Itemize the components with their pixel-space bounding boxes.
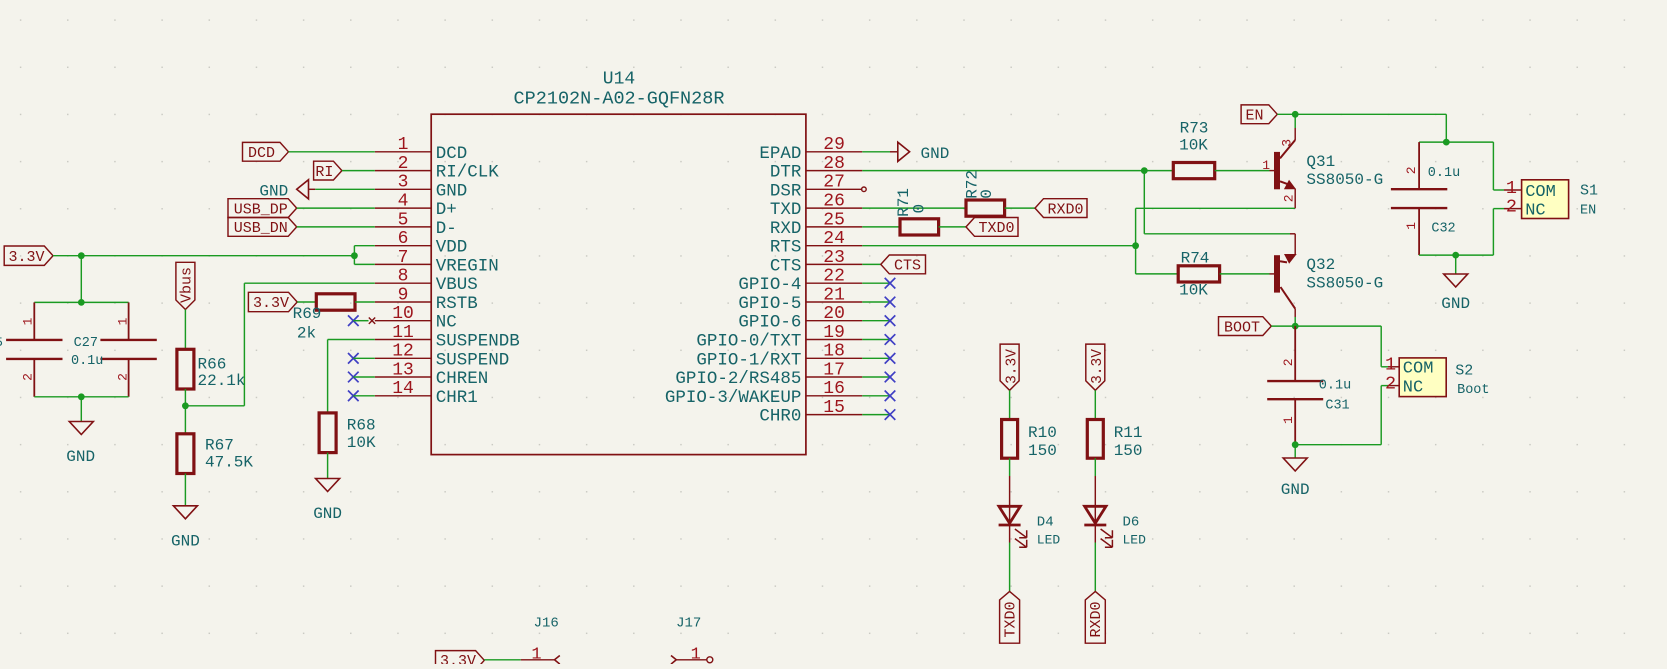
capacitor C31 <box>1267 326 1351 445</box>
svg-text:GPIO-6: GPIO-6 <box>738 313 801 333</box>
svg-text:D-: D- <box>436 219 457 239</box>
junction C32 top <box>1443 139 1450 146</box>
svg-text:28: 28 <box>823 154 845 174</box>
svg-text:11: 11 <box>392 323 414 343</box>
svg-text:2: 2 <box>1404 166 1419 174</box>
svg-text:CHREN: CHREN <box>436 369 489 389</box>
U14 pin 10 NC <box>375 304 457 333</box>
no-connect X pin 12 SUSPEND <box>348 353 375 364</box>
global label CTS <box>881 255 926 275</box>
svg-text:6: 6 <box>398 229 409 249</box>
global label DCD <box>243 142 289 162</box>
svg-text:13: 13 <box>392 360 414 380</box>
U14 pin 9 RSTB <box>375 285 478 314</box>
wire RTS up to Q31 emitter <box>1136 208 1296 245</box>
value LED D6 <box>1123 533 1147 548</box>
svg-text:2: 2 <box>1506 196 1517 217</box>
wire R74 to Q32 base <box>1220 273 1274 275</box>
wire 3.3V to R69 <box>297 301 316 303</box>
reference S2 <box>1455 363 1473 380</box>
global label USB_DN <box>228 218 297 238</box>
svg-text:0.1u: 0.1u <box>1319 379 1351 394</box>
global label EN <box>1241 105 1277 125</box>
svg-text:EPAD: EPAD <box>759 144 801 164</box>
svg-text:LED: LED <box>1037 533 1061 548</box>
svg-text:10K: 10K <box>1179 137 1208 155</box>
svg-text:20: 20 <box>823 304 845 324</box>
U14 pin 21 GPIO-5 <box>738 285 862 314</box>
svg-text:1: 1 <box>1404 222 1419 230</box>
wire pin 10 stub <box>353 320 368 322</box>
svg-text:CTS: CTS <box>894 258 921 275</box>
wire R67 to GND <box>184 474 186 506</box>
svg-text:GPIO-4: GPIO-4 <box>738 275 801 295</box>
svg-text:BOOT: BOOT <box>1224 319 1260 336</box>
svg-text:2: 2 <box>1385 373 1396 394</box>
svg-text:21: 21 <box>823 285 845 305</box>
resistor R71 <box>895 188 939 235</box>
svg-text:C32: C32 <box>1431 222 1455 237</box>
global label USB_DP <box>228 199 297 219</box>
wire DTR to R73 <box>862 170 1173 172</box>
svg-text:27: 27 <box>823 173 845 193</box>
svg-text:SS8050-G: SS8050-G <box>1306 171 1383 189</box>
svg-text:150: 150 <box>1114 442 1143 460</box>
svg-text:D+: D+ <box>436 200 457 220</box>
svg-text:RXD0: RXD0 <box>1047 201 1083 218</box>
svg-text:R67: R67 <box>205 437 234 455</box>
J16 pin 1 <box>521 645 560 664</box>
wire RI to pin 2 <box>342 170 375 172</box>
wire RTS down to R74 <box>1136 246 1179 274</box>
svg-text:CP2102N-A02-GQFN28R: CP2102N-A02-GQFN28R <box>514 88 725 109</box>
svg-text:USB_DN: USB_DN <box>234 220 288 237</box>
svg-text:0.1u: 0.1u <box>71 354 103 369</box>
ground symbol S1 <box>1441 274 1470 313</box>
LED D4 <box>999 506 1027 547</box>
svg-text:3.3V: 3.3V <box>253 295 289 312</box>
svg-text:3.3V: 3.3V <box>8 249 44 266</box>
resistor R66 <box>177 349 246 390</box>
U14 pin 2 RI/CLK <box>375 154 499 183</box>
wire R10 to D4 <box>1009 458 1011 506</box>
wire 3.3V to J16 pin 1 <box>484 659 521 661</box>
svg-text:GPIO-2/RS485: GPIO-2/RS485 <box>675 369 801 389</box>
U14 pin 7 VREGIN <box>375 248 499 277</box>
svg-text:16: 16 <box>823 379 845 399</box>
global label RXD0 <box>1035 199 1087 219</box>
no-connect flag pin 10 <box>369 318 375 324</box>
U14 pin 26 TXD <box>770 192 862 221</box>
power label 3.3V above R11 <box>1086 344 1106 390</box>
svg-text:17: 17 <box>823 360 845 380</box>
svg-text:RSTB: RSTB <box>436 294 478 314</box>
svg-text:GND: GND <box>1281 481 1310 499</box>
no-connect X pin 10 <box>348 315 359 326</box>
no-connect X pin 22 <box>862 278 895 289</box>
value EN S1 <box>1580 204 1596 219</box>
U14 pin 16 GPIO-3/WAKEUP <box>665 379 862 408</box>
svg-text:DCD: DCD <box>436 144 468 164</box>
svg-text:DTR: DTR <box>770 163 802 183</box>
capacitor C27 <box>71 302 157 396</box>
junction BOOT node <box>1292 323 1299 330</box>
svg-text:J16: J16 <box>534 616 559 632</box>
capacitor C26 (partial label) <box>0 302 63 396</box>
svg-text:0: 0 <box>910 204 928 214</box>
ground symbol R68 <box>313 479 342 524</box>
ground symbol R67 <box>171 506 200 551</box>
svg-text:5: 5 <box>398 210 409 230</box>
junction at VDD branch <box>351 252 358 259</box>
svg-text:CHR0: CHR0 <box>759 407 801 427</box>
U14 pin 17 GPIO-2/RS485 <box>675 360 862 389</box>
svg-text:CHR1: CHR1 <box>436 388 478 408</box>
junction RTS node <box>1132 242 1139 249</box>
no-connect X pin 21 <box>862 297 895 308</box>
svg-text:GPIO-3/WAKEUP: GPIO-3/WAKEUP <box>665 388 802 408</box>
svg-text:1: 1 <box>531 645 541 664</box>
U14 pin 24 RTS <box>770 229 862 258</box>
svg-text:25: 25 <box>823 210 845 230</box>
junction cap bottom <box>78 393 85 400</box>
svg-text:10K: 10K <box>1179 281 1208 299</box>
svg-text:4: 4 <box>398 192 409 212</box>
value LED D4 <box>1037 533 1061 548</box>
wire VBUS sense to pin 8 <box>185 283 374 406</box>
reference Q32 <box>1306 256 1335 274</box>
svg-text:8: 8 <box>398 267 409 287</box>
svg-text:NC: NC <box>436 313 457 333</box>
no-connect X pin 13 CHREN <box>348 372 375 383</box>
svg-text:DSR: DSR <box>770 181 802 201</box>
U14 pin 1 DCD <box>375 135 467 164</box>
resistor R67 <box>177 434 254 474</box>
svg-text:GND: GND <box>66 448 95 466</box>
no-connect X pin 14 CHR1 <box>348 391 375 402</box>
wire capacitor top rail <box>34 301 128 303</box>
U14 pin 18 GPIO-1/RXT <box>696 342 862 371</box>
svg-text:9: 9 <box>398 285 409 305</box>
svg-text:GND: GND <box>313 505 342 523</box>
resistor R72 <box>963 170 1004 216</box>
svg-text:Q31: Q31 <box>1306 153 1335 171</box>
svg-text:C27: C27 <box>74 336 98 351</box>
svg-text:R68: R68 <box>347 417 376 435</box>
svg-text:10: 10 <box>392 304 414 324</box>
U14 pin 19 GPIO-0/TXT <box>696 323 862 352</box>
svg-text:Vbus: Vbus <box>179 267 196 303</box>
svg-text:SUSPENDB: SUSPENDB <box>436 332 520 352</box>
U14 pin 14 CHR1 <box>375 379 478 408</box>
resistor R73 <box>1173 120 1214 179</box>
svg-text:C31: C31 <box>1325 399 1349 414</box>
wire BOOT rail <box>1271 317 1381 367</box>
U14 pin 5 D- <box>375 210 457 239</box>
svg-text:3.3V: 3.3V <box>1090 349 1106 384</box>
svg-text:RTS: RTS <box>770 238 802 258</box>
wire RTS from pin 24 <box>862 245 1135 247</box>
svg-text:GPIO-5: GPIO-5 <box>738 294 801 314</box>
svg-text:R74: R74 <box>1181 249 1210 267</box>
svg-text:GPIO-0/TXT: GPIO-0/TXT <box>696 332 801 352</box>
svg-text:RI: RI <box>315 164 333 181</box>
svg-text:J17: J17 <box>676 616 701 632</box>
svg-text:Boot: Boot <box>1457 383 1489 398</box>
svg-text:D4: D4 <box>1037 514 1054 530</box>
svg-text:R10: R10 <box>1028 424 1057 442</box>
wire EN rail <box>1277 114 1446 142</box>
U14 pin 4 D+ <box>375 192 457 221</box>
svg-text:1: 1 <box>691 645 701 664</box>
U14 pin 11 SUSPENDB <box>375 323 520 352</box>
U14 pin 25 RXD <box>770 210 862 239</box>
svg-text:TXD: TXD <box>770 200 802 220</box>
wire GND to pin 3 <box>315 188 375 190</box>
wire to GND caps <box>80 397 82 422</box>
wire R66 to R67 <box>184 389 186 434</box>
svg-text:GND: GND <box>436 181 468 201</box>
svg-text:2: 2 <box>21 373 36 381</box>
svg-text:150: 150 <box>1028 442 1057 460</box>
svg-text:1: 1 <box>116 317 131 325</box>
wire C31 to GND <box>1294 445 1296 458</box>
no-connect X pin 18 <box>862 353 895 364</box>
svg-text:1: 1 <box>1281 416 1296 424</box>
U14 pin 6 VDD <box>375 229 467 258</box>
global label TXD0 <box>966 218 1018 238</box>
switch S1 EN <box>1493 178 1568 221</box>
junction DTR node <box>1141 167 1148 174</box>
junction EN node <box>1292 111 1299 118</box>
global label TXD0 <box>1000 591 1020 643</box>
IC U14 CP2102N-A02-GQFN28R body <box>431 114 806 454</box>
transistor Q32 SS8050-G <box>1274 234 1296 317</box>
junction on 3.3V rail <box>78 252 85 259</box>
wire C32 bottom rail <box>1419 209 1493 256</box>
resistor R74 <box>1178 249 1219 299</box>
switch S2 Boot <box>1381 355 1446 398</box>
svg-text:22.1k: 22.1k <box>198 372 246 390</box>
svg-text:Q32: Q32 <box>1306 256 1335 274</box>
junction C32 bottom <box>1452 252 1459 259</box>
wire 3.3V down to capacitors <box>80 256 82 303</box>
svg-text:19: 19 <box>823 323 845 343</box>
svg-text:5: 5 <box>0 335 3 350</box>
reference Q31 <box>1306 153 1335 171</box>
svg-text:GND: GND <box>921 145 950 163</box>
junction C31 bottom <box>1292 441 1299 448</box>
wire D4 to TXD0 <box>1009 525 1011 591</box>
svg-text:VREGIN: VREGIN <box>436 256 499 276</box>
power symbol GND at pin 3 <box>259 180 315 201</box>
svg-text:R69: R69 <box>293 305 322 323</box>
connector J16 <box>534 616 559 632</box>
wire 3.3V to R10 <box>1009 390 1011 419</box>
wire D6 to RXD0 <box>1094 525 1096 591</box>
svg-text:U14: U14 <box>603 69 635 89</box>
svg-text:2: 2 <box>1282 194 1297 202</box>
svg-text:3.3V: 3.3V <box>1004 349 1020 384</box>
junction R66/R67 node <box>182 402 189 409</box>
connector J17 <box>676 616 701 632</box>
U14 pin 20 GPIO-6 <box>738 304 862 333</box>
reference D6 <box>1123 514 1140 530</box>
U14 pin 23 CTS <box>770 248 862 277</box>
power label 3.3V at R69 <box>248 292 297 312</box>
svg-text:2: 2 <box>398 154 409 174</box>
svg-text:0: 0 <box>978 189 996 199</box>
svg-text:24: 24 <box>823 229 845 249</box>
wire USB_DP to pin 4 <box>297 207 375 209</box>
svg-text:1: 1 <box>398 135 409 155</box>
resistor R68 <box>319 413 376 453</box>
U14 pin 8 VBUS <box>375 267 478 296</box>
svg-text:COM: COM <box>1403 360 1434 379</box>
svg-text:2: 2 <box>1281 358 1296 366</box>
U14 pin 12 SUSPEND <box>375 342 509 371</box>
resistor R69 <box>293 294 355 343</box>
wire RXD to R71 <box>862 226 900 228</box>
svg-text:LED: LED <box>1123 533 1147 548</box>
wire R69 to pin 9 <box>355 301 375 303</box>
svg-text:2k: 2k <box>297 325 316 343</box>
svg-text:GPIO-1/RXT: GPIO-1/RXT <box>696 350 801 370</box>
svg-text:USB_DP: USB_DP <box>234 201 288 218</box>
capacitor C32 <box>1391 142 1460 255</box>
svg-text:VDD: VDD <box>436 238 468 258</box>
svg-text:1: 1 <box>21 317 36 325</box>
ground symbol boot <box>1281 458 1310 499</box>
U14 pin 28 DTR <box>770 154 862 183</box>
power label 3.3V above R10 <box>1000 344 1020 390</box>
no-connect X pin 15 <box>862 409 895 420</box>
svg-text:SUSPEND: SUSPEND <box>436 350 510 370</box>
svg-text:GND: GND <box>171 533 200 551</box>
wire R11 to D6 <box>1094 458 1096 506</box>
svg-text:GND: GND <box>1441 295 1470 313</box>
svg-text:R11: R11 <box>1114 424 1143 442</box>
wire R68 to GND <box>327 453 329 479</box>
wire CTS from pin 23 <box>862 263 881 265</box>
wire 3.3V rail <box>53 255 354 257</box>
global label BOOT <box>1219 317 1272 337</box>
value CP2102N-A02-GQFN28R <box>514 88 725 109</box>
svg-text:SS8050-G: SS8050-G <box>1306 274 1383 292</box>
svg-text:EN: EN <box>1580 204 1596 219</box>
svg-text:COM: COM <box>1525 183 1556 202</box>
svg-text:2: 2 <box>116 373 131 381</box>
svg-text:3: 3 <box>1280 139 1295 147</box>
svg-text:47.5K: 47.5K <box>205 454 253 472</box>
svg-text:DCD: DCD <box>248 145 275 162</box>
svg-text:0.1u: 0.1u <box>1428 166 1460 181</box>
U14 pin 27 DSR <box>770 173 862 202</box>
svg-text:S2: S2 <box>1455 363 1473 380</box>
svg-text:VBUS: VBUS <box>436 275 478 295</box>
wire to VDD pin 6 <box>354 246 374 265</box>
svg-text:D6: D6 <box>1123 514 1140 530</box>
svg-text:18: 18 <box>823 342 845 362</box>
unconnected pin 27 DSR circle <box>862 187 867 192</box>
power label 3.3V at J16 <box>436 651 485 669</box>
LED D6 <box>1084 506 1112 547</box>
svg-text:10K: 10K <box>347 434 376 452</box>
wire R72 to RXD0 <box>1005 207 1035 209</box>
global label RI <box>314 161 342 181</box>
svg-text:RXD0: RXD0 <box>1088 601 1105 637</box>
value Boot <box>1457 383 1489 398</box>
wire pin 11 to R68 <box>328 340 375 413</box>
svg-text:S1: S1 <box>1580 183 1598 200</box>
no-connect X pin 17 <box>862 372 895 383</box>
power label Vbus <box>176 262 196 309</box>
wire EPAD to GND <box>862 151 898 153</box>
svg-text:RI/CLK: RI/CLK <box>436 163 500 183</box>
svg-text:26: 26 <box>823 192 845 212</box>
svg-text:7: 7 <box>398 248 409 268</box>
no-connect X pin 20 <box>862 315 895 326</box>
svg-text:EN: EN <box>1245 108 1263 125</box>
svg-text:CTS: CTS <box>770 256 802 276</box>
U14 pin 3 GND <box>375 173 467 202</box>
svg-text:22: 22 <box>823 267 845 287</box>
wire 3.3V to R11 <box>1094 390 1096 419</box>
value SS8050-G Q31 <box>1306 171 1383 189</box>
no-connect X pin 19 <box>862 334 895 345</box>
reference U14 <box>603 69 635 89</box>
value SS8050-G Q32 <box>1306 274 1383 292</box>
wire C31 bottom to S2 <box>1295 386 1381 445</box>
junction cap top <box>78 299 85 306</box>
svg-text:TXD0: TXD0 <box>978 220 1014 237</box>
svg-text:NC: NC <box>1525 202 1545 221</box>
resistor R10 <box>1002 420 1057 461</box>
svg-text:14: 14 <box>392 379 414 399</box>
svg-text:23: 23 <box>823 248 845 268</box>
no-connect X pin 16 <box>862 391 895 402</box>
U14 pin 22 GPIO-4 <box>738 267 862 296</box>
U14 pin 29 EPAD <box>759 135 862 164</box>
wire R73 to Q31 base <box>1215 170 1274 172</box>
svg-text:3: 3 <box>398 173 409 193</box>
global label RXD0 <box>1085 591 1105 643</box>
resistor R11 <box>1087 420 1142 461</box>
wire Vbus to R66 <box>184 310 186 350</box>
power label 3.3V left <box>4 246 53 266</box>
wire to GND S1 <box>1455 255 1457 274</box>
svg-text:1: 1 <box>1262 158 1270 173</box>
svg-text:R73: R73 <box>1180 120 1209 138</box>
svg-text:29: 29 <box>823 135 845 155</box>
svg-text:3.3V: 3.3V <box>440 653 476 664</box>
svg-text:TXD0: TXD0 <box>1003 601 1020 637</box>
wire DCD to pin 1 <box>289 151 375 153</box>
svg-text:NC: NC <box>1403 379 1423 398</box>
U14 pin 15 CHR0 <box>759 398 862 427</box>
J17 pin 1 <box>671 645 713 664</box>
wire USB_DN to pin 5 <box>297 226 375 228</box>
ground symbol caps <box>66 422 95 467</box>
wire R71 to TXD0 <box>939 226 966 228</box>
power symbol GND at EPAD <box>898 142 950 163</box>
wire TXD to R72 <box>862 207 966 209</box>
wire capacitor bottom rail <box>34 396 128 398</box>
reference S1 <box>1580 183 1598 200</box>
wire EN to C32/S1 top rail <box>1419 142 1493 190</box>
svg-text:R66: R66 <box>198 356 227 374</box>
U14 pin 13 CHREN <box>375 360 488 389</box>
